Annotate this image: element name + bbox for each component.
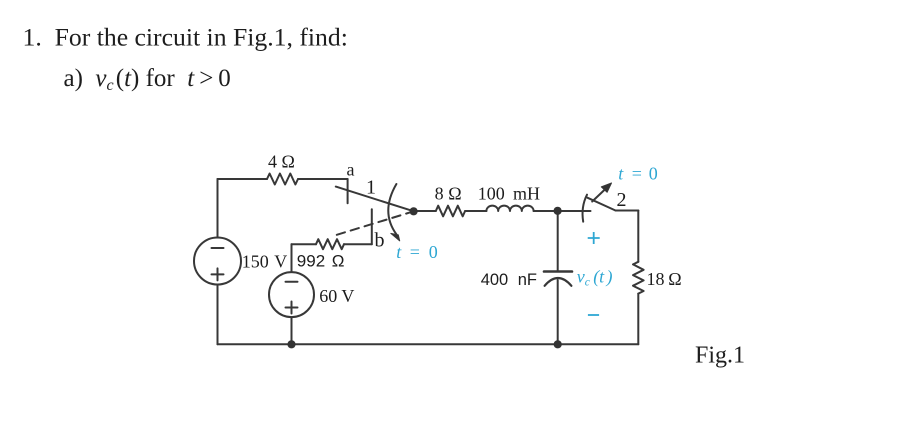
svg-text:1: 1 bbox=[366, 177, 376, 199]
wire 992 branch down to 60V source bbox=[291, 244, 293, 272]
svg-text:vc(t): vc(t) bbox=[577, 267, 613, 289]
switch S1 arrowhead bbox=[391, 233, 400, 241]
switch S2 motion arrow line bbox=[592, 187, 607, 202]
wire switch 2 to right corner bbox=[616, 210, 639, 212]
resistor R 992ohm bbox=[316, 239, 344, 249]
resistor R 18ohm bbox=[633, 262, 644, 294]
switch S2 arrowhead bbox=[601, 183, 611, 192]
resistor R 4ohm bbox=[267, 174, 298, 185]
svg-text:t=0: t=0 bbox=[618, 164, 658, 184]
wire 8ohm to inductor bbox=[465, 210, 486, 212]
svg-text:t=0: t=0 bbox=[396, 242, 438, 262]
wire right vertical lower bbox=[637, 294, 639, 345]
switch S1 contact a tick bbox=[347, 179, 349, 203]
wire 150V to bottom rail bbox=[217, 285, 219, 345]
switch S1 pole junction dot bbox=[410, 207, 418, 215]
switch S1 dashed blade to b bbox=[337, 213, 410, 235]
wire cap node down to capacitor bbox=[557, 211, 559, 271]
capacitor minus sign bbox=[588, 314, 599, 316]
switch S1 motion arc bbox=[388, 184, 396, 235]
svg-text:150V: 150V bbox=[242, 251, 288, 271]
switch S2 blade bbox=[587, 198, 615, 211]
wire b branch to contact b bbox=[344, 243, 372, 245]
wire right vertical upper bbox=[637, 211, 639, 262]
wire top-left horizontal (left segment) bbox=[218, 178, 268, 180]
60V plus sign bbox=[286, 302, 298, 314]
svg-text:a) vc (t) for t > 0: a) vc (t) for t > 0 bbox=[64, 65, 231, 94]
voltage source 150V circle bbox=[194, 238, 241, 285]
svg-text:2: 2 bbox=[617, 189, 627, 211]
svg-text:992Ω: 992Ω bbox=[297, 251, 345, 270]
resistor R 8ohm bbox=[436, 206, 465, 217]
junction node dot inductor/capacitor bbox=[554, 207, 562, 215]
wire inductor to cap node bbox=[534, 210, 558, 212]
150V plus sign bbox=[212, 268, 224, 280]
junction dot capacitor bottom bbox=[554, 340, 562, 348]
wire cap node to switch 2 bbox=[558, 210, 591, 212]
60V minus sign bbox=[286, 281, 298, 283]
wire capacitor to bottom rail bbox=[557, 280, 559, 344]
svg-text:60 V: 60 V bbox=[319, 286, 354, 306]
switch S1 blade (position 1, solid) bbox=[336, 187, 412, 211]
switch S1 contact b tick bbox=[371, 209, 373, 244]
wire top horizontal to node a bbox=[298, 178, 348, 180]
svg-text:400nF: 400nF bbox=[481, 271, 537, 289]
capacitor C bottom curved plate bbox=[545, 278, 572, 286]
bottom rail wire bbox=[218, 343, 639, 345]
150V minus sign bbox=[212, 247, 224, 249]
capacitor C top plate bbox=[544, 270, 572, 273]
svg-text:b: b bbox=[375, 230, 385, 252]
svg-text:Fig.1: Fig.1 bbox=[695, 342, 745, 368]
junction dot 60V bottom bbox=[287, 340, 295, 348]
svg-text:18Ω: 18Ω bbox=[647, 269, 682, 289]
switch S2 contact arc tick bbox=[583, 195, 587, 222]
inductor L 100mH bbox=[486, 206, 533, 211]
voltage source 60V circle bbox=[269, 272, 314, 317]
svg-text:4 Ω: 4 Ω bbox=[268, 152, 295, 172]
wire 60V to bottom rail bbox=[291, 317, 293, 344]
wire left vertical to 150V source bbox=[217, 179, 219, 238]
svg-text:100mH: 100mH bbox=[478, 184, 540, 204]
svg-text:1. For the circuit in Fig.1,: 1. For the circuit in Fig.1, find: bbox=[23, 23, 348, 52]
svg-text:8Ω: 8Ω bbox=[435, 184, 462, 204]
wire b branch horizontal (left of resistor) bbox=[292, 243, 317, 245]
svg-text:a: a bbox=[347, 160, 355, 180]
wire pole to 8ohm bbox=[414, 210, 436, 212]
capacitor plus sign bbox=[588, 232, 600, 244]
